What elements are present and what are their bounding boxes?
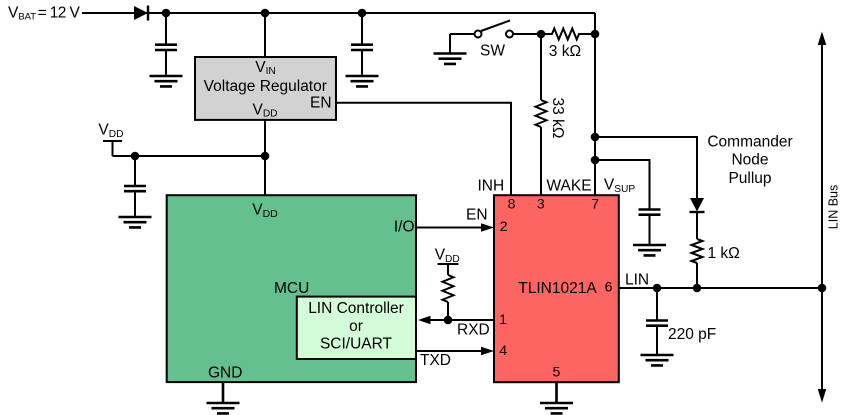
- svg-text:SW: SW: [480, 43, 505, 60]
- junction dot R1-VSUP: [591, 30, 600, 39]
- junction dot VSUP-C4: [591, 156, 600, 165]
- wire VSUP to C4: [595, 160, 650, 245]
- ground G3 under switch: [434, 54, 467, 64]
- wire I/O to EN: [416, 227, 484, 229]
- ground G6 under TLIN pin 5: [540, 382, 573, 413]
- svg-text:EN: EN: [310, 95, 332, 112]
- svg-text:LIN Controller: LIN Controller: [308, 300, 404, 317]
- MCU block U2: [167, 195, 416, 382]
- junction dot rail-C1: [162, 9, 171, 18]
- svg-text:EN: EN: [466, 207, 488, 224]
- wire VIN: [264, 13, 266, 57]
- ground G2: [346, 76, 379, 86]
- svg-text:5: 5: [553, 364, 561, 380]
- resistor R4 1k: [692, 239, 703, 263]
- svg-text:3 kΩ: 3 kΩ: [549, 43, 581, 60]
- svg-text:7: 7: [591, 195, 599, 211]
- junction dot VSUP-pullup: [591, 133, 600, 142]
- TLIN1021A U3: [494, 195, 619, 382]
- svg-text:RXD: RXD: [457, 322, 490, 339]
- svg-text:33 kΩ: 33 kΩ: [549, 98, 566, 139]
- junction dot LIN-bus: [818, 284, 827, 293]
- ground G8 under C5: [641, 355, 674, 365]
- svg-text:2: 2: [500, 218, 508, 234]
- ground G5 under MCU: [207, 382, 240, 413]
- svg-text:1: 1: [499, 311, 507, 327]
- resistor R2 33k: [536, 100, 547, 127]
- wire commander pullup branch: [595, 137, 697, 288]
- junction dot VDD-C3: [131, 152, 140, 161]
- ground G7 under C4: [633, 245, 666, 255]
- diode D1: [134, 6, 148, 21]
- wire C5 stub: [656, 288, 658, 355]
- LIN bus line: [818, 32, 827, 403]
- svg-text:TXD: TXD: [420, 352, 451, 369]
- junction dot R3-RXD: [444, 316, 453, 325]
- resistor R1 3k: [541, 29, 595, 40]
- wire R3 to RXD: [447, 302, 449, 320]
- svg-text:Voltage Regulator: Voltage Regulator: [204, 78, 327, 95]
- arrow RXD into controller: [418, 316, 431, 324]
- voltage regulator U1: [195, 57, 336, 120]
- svg-text:GND: GND: [208, 365, 242, 382]
- wire EN to INH: [336, 103, 511, 196]
- svg-text:1 kΩ: 1 kΩ: [708, 245, 740, 262]
- wire C2 stub: [361, 13, 363, 76]
- arrow TXD into pin 4: [481, 347, 494, 355]
- LIN controller sub-block: [297, 297, 416, 359]
- junction dot rail-VIN: [261, 9, 270, 18]
- junction dot rail-C2: [358, 9, 367, 18]
- svg-text:SCI/UART: SCI/UART: [320, 336, 393, 353]
- svg-text:TLIN1021A: TLIN1021A: [518, 280, 597, 297]
- node VDD left symbol: [98, 122, 123, 157]
- svg-text:Pullup: Pullup: [728, 170, 771, 187]
- capacitor C3: [124, 186, 146, 191]
- node Commander Node Pullup label: [707, 133, 792, 187]
- capacitor C1: [155, 45, 177, 50]
- junction dot LIN-C5: [653, 284, 662, 293]
- svg-text:6: 6: [605, 279, 613, 295]
- diode D2: [690, 198, 705, 212]
- wire SW junction down to R2: [540, 34, 542, 100]
- svg-text:INH: INH: [478, 178, 505, 195]
- wire TXD: [415, 350, 484, 352]
- junction dot SW-R1: [537, 30, 546, 39]
- svg-text:4: 4: [499, 342, 507, 358]
- capacitor C5: [646, 321, 668, 326]
- svg-text:or: or: [349, 318, 363, 335]
- wire C1 stub: [165, 13, 167, 76]
- wire R2 to WAKE: [540, 127, 542, 196]
- wire VDD horizontal: [113, 155, 266, 157]
- junction dot LIN-R4: [693, 284, 702, 293]
- wire LIN: [619, 287, 822, 289]
- svg-text:LIN: LIN: [625, 272, 649, 289]
- svg-text:220 pF: 220 pF: [668, 326, 716, 343]
- svg-text:WAKE: WAKE: [547, 178, 592, 195]
- svg-text:I/O: I/O: [394, 219, 415, 236]
- svg-text:3: 3: [537, 195, 545, 211]
- resistor R3 pullup: [443, 275, 454, 302]
- ground G1: [150, 76, 183, 86]
- capacitor C2: [351, 45, 373, 50]
- node VDD pullup symbol: [435, 247, 460, 275]
- capacitor C4: [639, 210, 661, 215]
- svg-text:8: 8: [508, 195, 516, 211]
- svg-text:Commander: Commander: [707, 133, 792, 150]
- wire regulator VDD down to MCU: [264, 120, 266, 196]
- wire VBAT top rail: [82, 13, 595, 196]
- arrow into EN pin 2: [481, 223, 494, 231]
- junction dot VDD-MCU: [261, 152, 270, 161]
- svg-text:MCU: MCU: [274, 280, 309, 297]
- ground G4: [119, 217, 152, 227]
- wire C3 stub: [134, 156, 136, 217]
- svg-text:Node: Node: [731, 152, 768, 169]
- svg-text:LIN Bus: LIN Bus: [827, 185, 841, 229]
- switch SW: [450, 21, 537, 54]
- wire RXD: [428, 319, 494, 321]
